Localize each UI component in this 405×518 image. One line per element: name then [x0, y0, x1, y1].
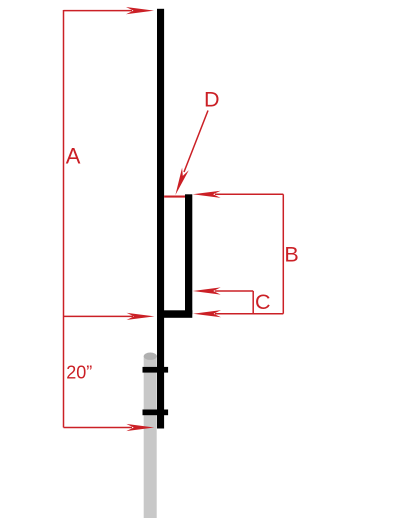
svg-text:D: D — [204, 87, 220, 111]
svg-text:B: B — [284, 243, 298, 267]
svg-text:A: A — [66, 143, 81, 168]
svg-text:C: C — [255, 290, 271, 314]
svg-text:20”: 20” — [66, 363, 92, 383]
